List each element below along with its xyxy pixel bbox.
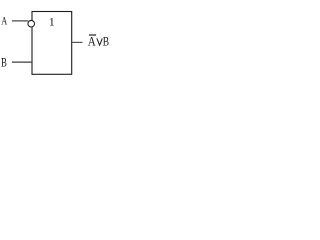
OR symbol (logical vee) xyxy=(97,38,102,45)
svg-text:A: A xyxy=(1,16,8,29)
svg-text:A: A xyxy=(88,35,97,49)
wire B input xyxy=(12,61,32,63)
svg-text:B: B xyxy=(103,35,109,48)
svg-text:B: B xyxy=(1,56,7,70)
gate body U1 (GOST OR gate rectangle) xyxy=(32,12,72,75)
overline over A xyxy=(89,34,96,36)
wire A input xyxy=(12,20,28,22)
wire output xyxy=(72,41,83,43)
svg-text:1: 1 xyxy=(49,15,55,29)
inversion bubble on input A xyxy=(28,20,35,27)
